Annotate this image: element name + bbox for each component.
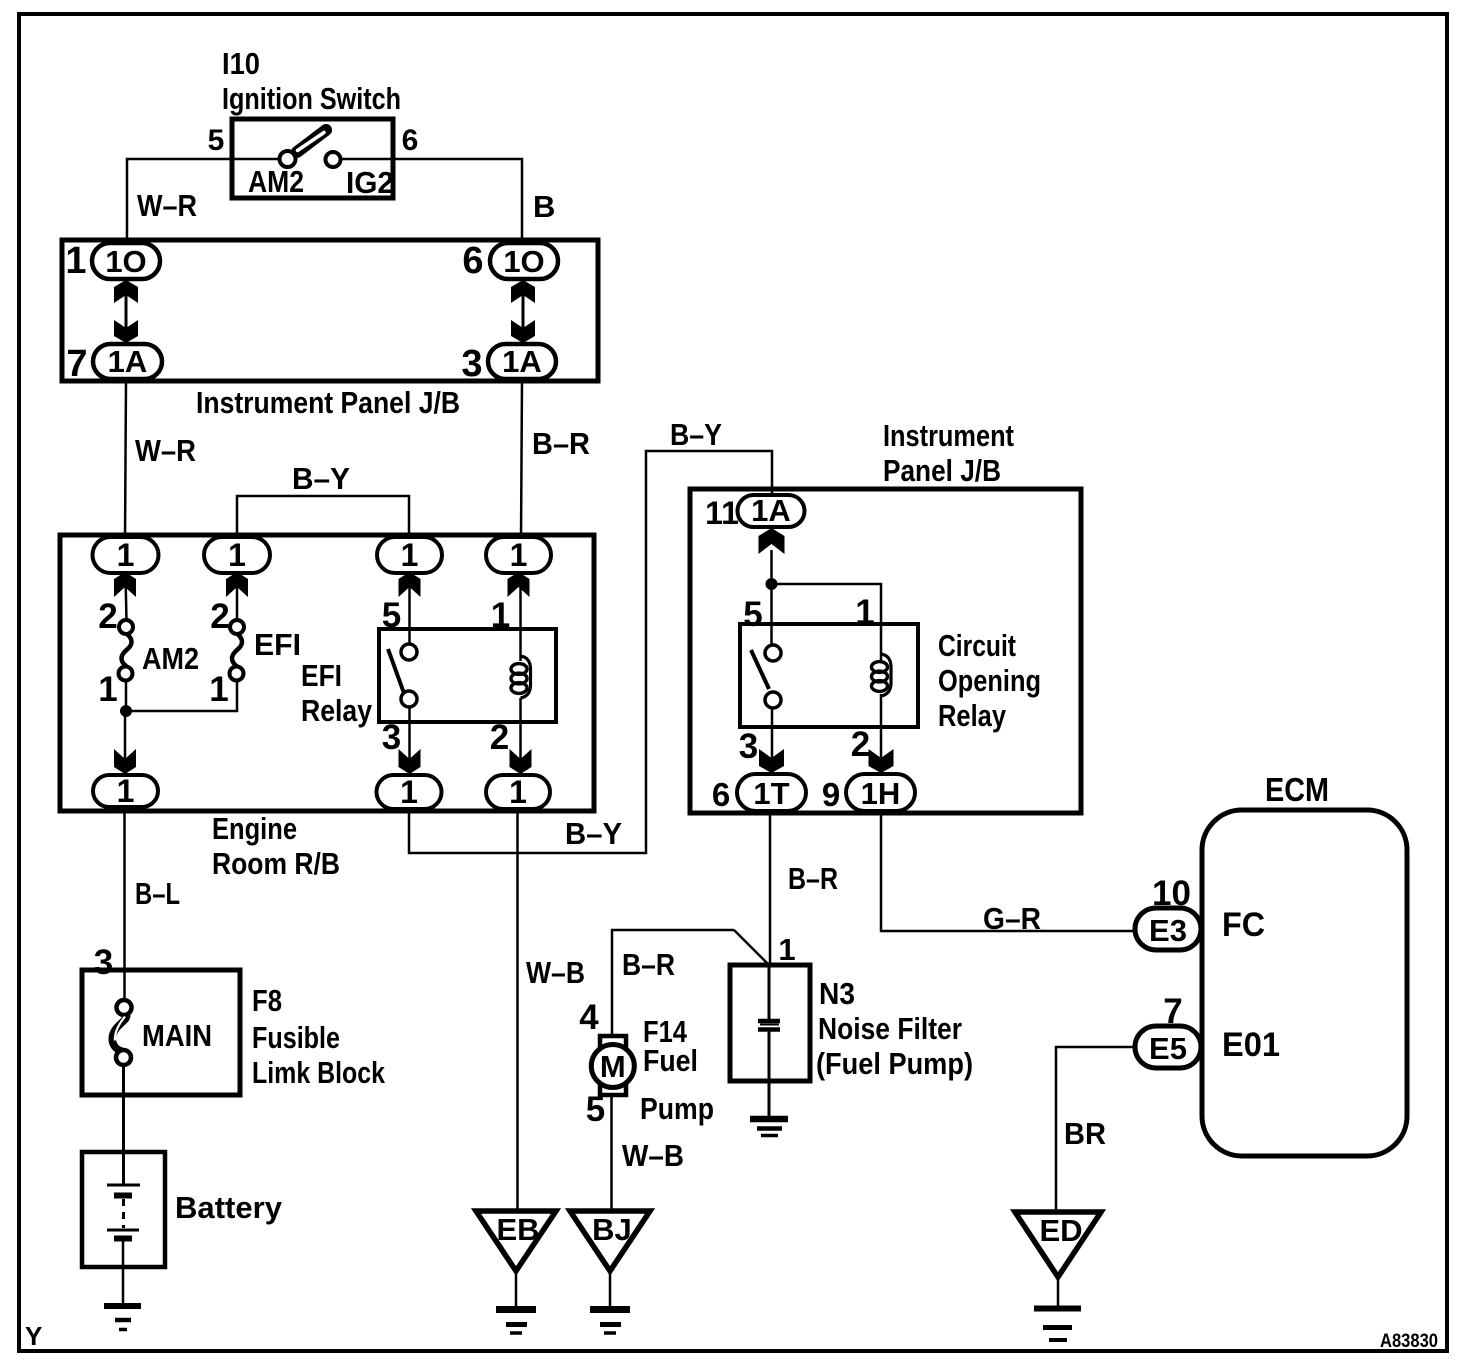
svg-text:EB: EB bbox=[496, 1212, 539, 1247]
svg-text:1A: 1A bbox=[502, 344, 542, 379]
connector 1H pin 9 bbox=[822, 774, 915, 813]
connector 1O pin 1 bbox=[65, 240, 160, 282]
fusible link block F8 box bbox=[82, 970, 386, 1095]
arrow into connector 1 bottom left bbox=[114, 749, 136, 774]
svg-text:B: B bbox=[533, 189, 555, 224]
svg-text:E01: E01 bbox=[1222, 1026, 1280, 1064]
ground noise filter bbox=[750, 1119, 788, 1136]
wire junction to EFI fuse pin 1 bbox=[126, 682, 237, 711]
svg-text:11: 11 bbox=[705, 495, 739, 531]
svg-text:1: 1 bbox=[509, 774, 527, 810]
fuse AM2 bbox=[98, 597, 199, 709]
arrow into 1T bbox=[759, 749, 784, 773]
wire relay coil to 1H bbox=[880, 694, 883, 775]
svg-text:1: 1 bbox=[117, 773, 135, 809]
noise filter N3 box bbox=[730, 965, 973, 1081]
double arrow 1O to 1A left bbox=[114, 280, 138, 343]
svg-text:Battery: Battery bbox=[175, 1190, 283, 1225]
wire 1A to junction bbox=[770, 550, 773, 590]
svg-text:(Fuel Pump): (Fuel Pump) bbox=[816, 1046, 973, 1081]
wire F8 to battery bbox=[122, 1065, 125, 1185]
fuse MAIN bbox=[112, 1000, 212, 1065]
svg-text:BJ: BJ bbox=[592, 1212, 632, 1247]
svg-text:B–Y: B–Y bbox=[565, 816, 622, 851]
svg-text:Engine: Engine bbox=[212, 811, 297, 846]
svg-text:3: 3 bbox=[94, 943, 113, 982]
wire junction to relay switch pin 5 bbox=[770, 584, 773, 646]
svg-text:2: 2 bbox=[210, 597, 229, 636]
arrow into 1H bbox=[869, 749, 894, 773]
svg-text:1: 1 bbox=[209, 670, 228, 709]
svg-text:Limk Block: Limk Block bbox=[252, 1055, 386, 1090]
EFI relay switch bbox=[388, 644, 417, 707]
svg-text:1: 1 bbox=[117, 537, 135, 573]
svg-text:Ignition Switch: Ignition Switch bbox=[222, 81, 401, 116]
wire 1 to EFI fuse bbox=[236, 575, 239, 621]
svg-text:B–R: B–R bbox=[788, 861, 838, 896]
ground connector BJ bbox=[570, 1211, 650, 1333]
arrow into relay pin 1 bbox=[508, 572, 530, 597]
fuel pump motor F14 bbox=[591, 1036, 634, 1095]
ground connector ED bbox=[1015, 1212, 1101, 1340]
svg-text:A83830: A83830 bbox=[1380, 1331, 1438, 1352]
svg-text:1O: 1O bbox=[503, 244, 544, 279]
svg-text:B–Y: B–Y bbox=[670, 417, 722, 452]
svg-text:E5: E5 bbox=[1149, 1031, 1187, 1066]
wire W-R 1A to Engine Room R/B bbox=[125, 381, 126, 540]
EFI relay box bbox=[301, 629, 556, 728]
ignition switch contact IG2 bbox=[326, 152, 395, 200]
wire B-R 1T to noise filter bbox=[769, 813, 772, 965]
svg-text:3: 3 bbox=[461, 343, 482, 385]
svg-text:5: 5 bbox=[382, 596, 401, 635]
junction block Instrument Panel J/B box bbox=[62, 240, 598, 420]
capacitor in noise filter bbox=[758, 965, 780, 1119]
wire B ignition pin6 to J/B connector 1O bbox=[340, 159, 522, 248]
connector 1O pin 6 bbox=[462, 240, 558, 282]
svg-text:AM2: AM2 bbox=[142, 641, 199, 676]
svg-text:ED: ED bbox=[1039, 1213, 1082, 1248]
svg-text:1A: 1A bbox=[108, 344, 148, 379]
wire BR E5 to ground ED bbox=[1056, 1047, 1135, 1212]
arrow into 1A bbox=[759, 528, 785, 554]
svg-text:3: 3 bbox=[739, 727, 758, 766]
svg-text:1: 1 bbox=[491, 596, 510, 635]
svg-text:EFI: EFI bbox=[301, 658, 342, 693]
relay block Engine Room R/B box bbox=[60, 535, 594, 881]
svg-text:5: 5 bbox=[208, 124, 225, 157]
svg-text:1: 1 bbox=[510, 537, 528, 573]
wire relay switch to 1T bbox=[771, 708, 774, 775]
battery cells bbox=[107, 1185, 140, 1239]
wire junction to connector 1 bottom bbox=[124, 711, 127, 776]
battery box bbox=[82, 1152, 283, 1267]
svg-text:1A: 1A bbox=[751, 493, 791, 528]
wire connector to EFI relay coil bbox=[519, 575, 522, 661]
wire W-B connector to ground EB bbox=[516, 809, 519, 1211]
svg-text:M: M bbox=[600, 1049, 626, 1084]
wire B-Y EFI relay to Instrument Panel J/B 1A bbox=[409, 451, 772, 853]
svg-text:IG2: IG2 bbox=[346, 165, 394, 200]
circuit opening relay switch bbox=[751, 645, 781, 708]
svg-text:AM2: AM2 bbox=[248, 164, 304, 199]
svg-text:1: 1 bbox=[228, 537, 246, 573]
wire 1 to AM2 fuse bbox=[126, 575, 127, 621]
connector 1A pin 7 bbox=[66, 343, 162, 385]
svg-text:Room R/B: Room R/B bbox=[212, 846, 340, 881]
circuit opening relay box bbox=[740, 624, 1041, 733]
wire AM2 fuse to junction bbox=[125, 681, 128, 715]
svg-text:W–B: W–B bbox=[526, 955, 585, 990]
connector 1T pin 6 bbox=[712, 774, 806, 813]
svg-text:Noise Filter: Noise Filter bbox=[818, 1011, 962, 1046]
svg-text:Opening: Opening bbox=[938, 663, 1041, 698]
ECM box bbox=[1202, 771, 1407, 1156]
wire B-Y EFI fuse to EFI relay bridge bbox=[237, 496, 409, 539]
arrow into relay pin 5 bbox=[399, 572, 421, 597]
svg-text:5: 5 bbox=[743, 595, 762, 634]
svg-text:1: 1 bbox=[400, 774, 418, 810]
svg-text:4: 4 bbox=[579, 998, 599, 1037]
svg-text:Y: Y bbox=[25, 1321, 42, 1351]
svg-text:2: 2 bbox=[98, 597, 117, 636]
svg-text:ECM: ECM bbox=[1265, 771, 1329, 808]
svg-text:BR: BR bbox=[1064, 1116, 1106, 1151]
wire connector to EFI relay switch bbox=[408, 575, 411, 645]
svg-text:W–B: W–B bbox=[622, 1138, 684, 1173]
wire W-R ignition pin5 to J/B connector 1O bbox=[127, 159, 280, 248]
wire EFI relay coil to connector bbox=[519, 698, 522, 776]
svg-text:I10: I10 bbox=[222, 46, 260, 81]
svg-text:F8: F8 bbox=[252, 983, 282, 1018]
svg-text:1: 1 bbox=[98, 670, 117, 709]
arrow into connector 1 bottom pin3 bbox=[399, 749, 421, 774]
wire B-R fuel pump feed bbox=[612, 930, 768, 1036]
svg-text:B–L: B–L bbox=[135, 876, 180, 911]
svg-text:1H: 1H bbox=[861, 776, 901, 811]
svg-text:1O: 1O bbox=[105, 244, 146, 279]
connector 1 top (relay pin 5) bbox=[377, 537, 442, 573]
ignition switch I10 box bbox=[232, 119, 393, 198]
svg-text:Fusible: Fusible bbox=[252, 1020, 340, 1055]
wire EFI relay switch to connector bbox=[408, 707, 411, 776]
svg-text:Fuel: Fuel bbox=[643, 1043, 698, 1078]
svg-text:B–R: B–R bbox=[532, 426, 590, 461]
svg-text:W–R: W–R bbox=[135, 433, 196, 468]
wire G-R 1H to ECM E3 bbox=[881, 811, 1136, 931]
junction block Instrument Panel J/B 2 box bbox=[690, 418, 1081, 813]
svg-text:FC: FC bbox=[1222, 906, 1265, 944]
ignition switch lever bbox=[297, 130, 326, 152]
svg-text:7: 7 bbox=[66, 343, 87, 385]
connector 1 top (EFI fuse) bbox=[204, 537, 270, 573]
svg-text:Circuit: Circuit bbox=[938, 628, 1016, 663]
svg-text:Relay: Relay bbox=[301, 693, 373, 728]
arrow into connector 1 bottom pin2 bbox=[510, 749, 532, 774]
svg-text:1: 1 bbox=[778, 932, 795, 967]
svg-text:9: 9 bbox=[822, 776, 840, 813]
connector E3 bbox=[1135, 908, 1201, 950]
svg-text:6: 6 bbox=[462, 240, 483, 282]
ground battery bbox=[104, 1306, 141, 1330]
svg-text:Instrument Panel J/B: Instrument Panel J/B bbox=[196, 385, 460, 420]
svg-text:2: 2 bbox=[851, 725, 870, 764]
svg-text:3: 3 bbox=[382, 718, 401, 757]
svg-text:5: 5 bbox=[586, 1090, 605, 1129]
connector 1 top (AM2 fuse) bbox=[93, 537, 159, 573]
svg-text:MAIN: MAIN bbox=[142, 1018, 212, 1053]
svg-text:E3: E3 bbox=[1149, 913, 1187, 948]
svg-text:1: 1 bbox=[855, 593, 874, 632]
fuel pump F14 labels bbox=[640, 1014, 714, 1126]
connector E5 bbox=[1135, 1026, 1201, 1068]
svg-text:Panel J/B: Panel J/B bbox=[883, 453, 1001, 488]
connector 1A pin 11 bbox=[705, 493, 804, 531]
ignition switch contact AM2 bbox=[248, 151, 304, 199]
fuse EFI bbox=[209, 597, 301, 709]
svg-text:Relay: Relay bbox=[938, 698, 1007, 733]
svg-text:1: 1 bbox=[401, 537, 419, 573]
svg-text:Instrument: Instrument bbox=[883, 418, 1014, 453]
svg-text:6: 6 bbox=[402, 124, 419, 157]
junction node bbox=[120, 705, 132, 717]
junction node bbox=[766, 578, 778, 590]
svg-text:B–R: B–R bbox=[622, 947, 675, 982]
connector 1 bottom (pin 2 W-B) bbox=[486, 774, 550, 810]
svg-text:G–R: G–R bbox=[983, 901, 1041, 936]
wire battery to ground bbox=[122, 1240, 125, 1306]
circuit opening relay coil bbox=[872, 654, 892, 696]
connector 1 bottom (pin 3 B-Y) bbox=[377, 774, 442, 810]
svg-text:2: 2 bbox=[490, 718, 509, 757]
svg-text:Pump: Pump bbox=[640, 1091, 714, 1126]
double arrow 1O to 1A right bbox=[511, 280, 535, 343]
connector 1 top (relay pin 1) bbox=[486, 537, 551, 573]
arrow into EFI fuse bbox=[226, 572, 248, 597]
wire junction to relay coil pin 1 bbox=[772, 584, 882, 661]
wire B-L to fusible link block bbox=[123, 807, 126, 1001]
arrow into AM2 fuse bbox=[114, 572, 136, 597]
wire B-R 1A to Engine Room R/B bbox=[521, 381, 522, 540]
svg-text:B–Y: B–Y bbox=[292, 461, 350, 496]
svg-text:EFI: EFI bbox=[254, 627, 301, 662]
EFI relay coil bbox=[511, 656, 531, 698]
svg-text:1: 1 bbox=[65, 240, 86, 282]
connector 1 bottom (B-L) bbox=[93, 773, 158, 809]
svg-text:1T: 1T bbox=[753, 776, 789, 811]
connector 1A pin 3 bbox=[461, 343, 556, 385]
ignition switch I10 component label bbox=[222, 46, 401, 116]
wire W-B fuel pump to ground BJ bbox=[610, 1095, 613, 1211]
svg-text:N3: N3 bbox=[819, 976, 855, 1011]
svg-text:6: 6 bbox=[712, 776, 730, 813]
svg-text:W–R: W–R bbox=[137, 188, 197, 223]
ground connector EB bbox=[476, 1211, 556, 1333]
